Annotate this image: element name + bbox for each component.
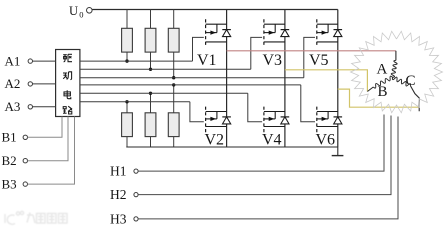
junction dot R6/line4 xyxy=(172,83,175,86)
node A2 terminal circle xyxy=(28,82,32,86)
wire: gate riser line1 up to high-side gate xyxy=(193,37,204,61)
motor winding C (coil) xyxy=(392,77,410,86)
box text glyph dong xyxy=(63,72,72,80)
wire: R4 bottom lead to ground rail xyxy=(126,137,128,147)
wire: V5/V6 phase C column (rail to ground) xyxy=(337,10,339,148)
wire: gate bus line 6 from driver xyxy=(80,101,190,103)
wire: V1/V2 phase A column (rail to ground) xyxy=(226,10,228,148)
svg-text:A3: A3 xyxy=(5,99,21,114)
driver block U1 "drive circuit" box xyxy=(56,50,80,117)
node A1 terminal circle xyxy=(28,59,32,63)
box text glyph dian xyxy=(64,90,71,98)
transistor V2 (low side N-MOSFET with body diode) xyxy=(206,107,231,134)
wire: gate bus line 5 from driver xyxy=(80,92,248,94)
node B3 terminal circle xyxy=(23,182,27,186)
wire: A2 to driver box xyxy=(33,83,56,85)
wire: ground rail xyxy=(126,146,337,148)
wire: gate bus line 1 from driver xyxy=(80,60,193,62)
svg-text:B3: B3 xyxy=(2,176,17,191)
wire: gate bus line 2 from driver xyxy=(80,68,251,70)
junction dot R5/line5 xyxy=(149,92,152,95)
wire: H1 to motor sensor xyxy=(138,115,384,172)
wire: phase C feed (yellow) xyxy=(338,89,419,107)
box text glyph qu xyxy=(63,54,72,62)
wire: rail to resistor R2 xyxy=(150,10,152,29)
wire: gate riser line2 up to high-side gate xyxy=(251,37,262,69)
junction dot R4/line6 xyxy=(125,100,128,103)
resistor R2 (gate pull-up) xyxy=(145,28,156,52)
wire: gate riser line6 down to low-side gate xyxy=(190,102,204,122)
transistor V1 (high side N-MOSFET with body diode) xyxy=(206,19,231,47)
wire: gate line 4 to resistor R6 top xyxy=(173,85,175,113)
wire: gate bus line 3 from driver xyxy=(80,77,304,79)
box text glyph lu xyxy=(63,106,72,114)
svg-text:A2: A2 xyxy=(5,76,21,91)
transistor V5 (high side N-MOSFET with body diode) xyxy=(317,19,342,47)
wire: H2 to motor sensor xyxy=(138,116,391,195)
wire: B2 to driver box bottom xyxy=(28,117,69,161)
node H3 terminal circle xyxy=(134,217,138,221)
wire: A1 to driver box xyxy=(33,60,56,62)
wire: B1 to driver box bottom xyxy=(28,117,63,138)
transistor V6 (low side N-MOSFET with body diode) xyxy=(317,107,342,134)
svg-text:V3: V3 xyxy=(263,52,283,69)
resistor R6 (gate pull-down) xyxy=(168,113,179,137)
resistor R5 (gate pull-down) xyxy=(145,113,156,137)
svg-text:V1: V1 xyxy=(197,52,217,69)
svg-text:H1: H1 xyxy=(110,164,127,179)
svg-text:V5: V5 xyxy=(309,52,329,69)
transistor V4 (low side N-MOSFET with body diode) xyxy=(264,107,289,134)
node U0 terminal circle xyxy=(87,8,93,14)
wire: R6 bottom lead to ground rail xyxy=(173,137,175,147)
wire: B3 to driver box bottom xyxy=(28,117,75,185)
wire: phase C lead xyxy=(411,86,420,111)
node B2 terminal circle xyxy=(23,159,27,163)
wire: R2 bottom lead to gate line 2 xyxy=(150,52,152,69)
wire: rail to resistor R1 xyxy=(126,10,128,29)
watermark (decorative) xyxy=(5,211,67,224)
node H1 terminal circle xyxy=(134,169,138,173)
wire: H3 to motor sensor xyxy=(138,117,398,219)
svg-text:V2: V2 xyxy=(205,132,225,149)
motor M stator outline (toothed circle) xyxy=(351,31,443,113)
svg-text:B: B xyxy=(378,84,388,100)
junction dot R2/line2 xyxy=(149,68,152,71)
wire: rail to resistor R3 xyxy=(173,10,175,29)
wire: phase A feed (red) to motor xyxy=(227,50,396,52)
node H2 terminal circle xyxy=(134,193,138,197)
wire: gate riser line5 down to low-side gate xyxy=(248,93,262,122)
wire: phase B feed (yellow) xyxy=(285,70,368,92)
junction dot R3/line3 xyxy=(172,76,175,79)
wire: gate bus line 4 from driver xyxy=(80,84,301,86)
svg-text:U: U xyxy=(69,4,78,18)
svg-text:C: C xyxy=(406,73,416,89)
wire: gate line 6 to resistor R4 top xyxy=(126,102,128,113)
motor winding B (coil) xyxy=(373,76,392,88)
resistor R1 (gate pull-up) xyxy=(122,28,133,52)
node B1 terminal circle xyxy=(23,135,27,139)
svg-text:H2: H2 xyxy=(110,187,127,202)
wire: gate riser line3 up to high-side gate xyxy=(304,37,315,77)
motor winding A (coil) xyxy=(391,60,397,77)
wire: R5 bottom lead to ground rail xyxy=(150,137,152,147)
svg-text:B2: B2 xyxy=(2,153,17,168)
wire: phase B lead xyxy=(367,87,373,92)
resistor R4 (gate pull-down) xyxy=(122,113,133,137)
wire: V3/V4 phase B column (rail to ground) xyxy=(284,10,286,148)
svg-text:H3: H3 xyxy=(110,211,127,226)
wire: +U0 top supply rail xyxy=(92,9,338,11)
ground symbol xyxy=(337,147,339,156)
svg-text:V4: V4 xyxy=(262,132,282,149)
node A3 terminal circle xyxy=(28,105,32,109)
svg-text:B1: B1 xyxy=(2,130,17,145)
wire: phase A drop into winding xyxy=(395,51,397,61)
wire: R3 bottom lead to gate line 3 xyxy=(173,52,175,78)
svg-text:0: 0 xyxy=(79,9,83,19)
resistor R3 (gate pull-up) xyxy=(168,28,179,52)
wire: A3 to driver box xyxy=(33,106,56,108)
wire: R1 bottom lead to gate line 1 xyxy=(126,52,128,61)
wire: gate line 5 to resistor R5 top xyxy=(150,93,152,113)
transistor V3 (high side N-MOSFET with body diode) xyxy=(264,19,289,47)
junction dot R1/line1 xyxy=(125,59,128,62)
svg-text:V6: V6 xyxy=(316,132,336,149)
wire: gate riser line4 down to low-side gate xyxy=(301,85,315,122)
svg-text:A1: A1 xyxy=(5,53,21,68)
svg-text:A: A xyxy=(377,62,388,78)
